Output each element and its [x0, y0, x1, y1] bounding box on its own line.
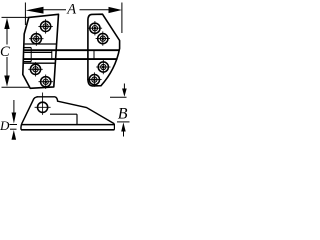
- screw A crosshair: [38, 19, 52, 33]
- side view pin hole crosshair: [35, 93, 51, 115]
- dimension D upper arrow line: [13, 100, 15, 113]
- screw H outer circle: [89, 75, 99, 85]
- dimension B extension line bottom: [117, 121, 130, 123]
- left hinge plate outline: [23, 14, 59, 88]
- dimension D up arrowhead: [12, 130, 17, 140]
- screw C crosshair: [28, 62, 42, 76]
- screw D inner circle: [43, 79, 48, 84]
- screw F outer circle: [98, 34, 108, 44]
- dimension A extension line left: [24, 3, 26, 26]
- screw A outer circle: [41, 21, 51, 31]
- screw G center dot: [102, 66, 105, 69]
- screw E center dot: [94, 27, 97, 30]
- screw C center dot: [34, 68, 37, 71]
- screw B center dot: [35, 37, 38, 40]
- screw B crosshair: [29, 32, 43, 46]
- dimension A extension line right: [121, 3, 123, 34]
- screw B inner circle: [34, 36, 39, 41]
- screw G inner circle: [101, 64, 106, 69]
- side view upright top-left rounded corner and left diagonal: [21, 97, 38, 130]
- svg-text:B: B: [118, 106, 128, 123]
- screw E outer circle: [90, 23, 100, 33]
- right hinge plate outline: [88, 14, 120, 86]
- side view flange right edge: [113, 124, 115, 130]
- screw C outer circle: [30, 64, 40, 74]
- screw F center dot: [101, 37, 104, 40]
- svg-text:C: C: [0, 44, 10, 60]
- side view pin hole circle: [38, 102, 48, 112]
- screw D outer circle: [41, 77, 51, 87]
- screw D center dot: [44, 80, 47, 83]
- screw H crosshair: [87, 72, 101, 86]
- screw E crosshair: [88, 21, 102, 35]
- dimension B down arrowhead: [122, 89, 127, 97]
- dimension A left arrowhead: [26, 7, 44, 14]
- left plate mouth bar lower: [24, 61, 32, 63]
- dimension C line upper segment: [6, 28, 8, 45]
- screw F inner circle: [100, 36, 105, 41]
- left plate channel top line: [25, 43, 57, 45]
- screw H center dot: [93, 78, 96, 81]
- dimension D extension line lower: [10, 128, 17, 130]
- screw C inner circle: [33, 67, 38, 72]
- side view base step horizontal: [50, 113, 77, 115]
- left plate mid bar: [24, 51, 52, 53]
- screw A inner circle: [43, 24, 48, 29]
- svg-text:D: D: [0, 118, 10, 133]
- dimension A right arrowhead: [109, 7, 122, 13]
- dimension C down arrowhead: [4, 76, 9, 87]
- dimension C extension line top: [2, 16, 29, 18]
- screw E inner circle: [92, 26, 97, 31]
- strap bottom edge: [24, 58, 118, 60]
- strap mouth vertical left: [30, 48, 32, 62]
- screw G outer circle: [98, 62, 108, 72]
- strap top edge: [24, 49, 119, 51]
- screw F crosshair: [96, 31, 110, 45]
- strap terminator vertical in right plate: [93, 51, 95, 59]
- screw A center dot: [44, 25, 47, 28]
- side view flange bottom line: [21, 129, 114, 131]
- screw G crosshair: [96, 60, 110, 74]
- dimension B upper arrow line: [123, 84, 125, 90]
- side view flange top line: [21, 124, 114, 126]
- screw D crosshair: [39, 75, 53, 89]
- screw B outer circle: [31, 34, 41, 44]
- dimension C up arrowhead: [4, 18, 9, 29]
- dimension A line left segment: [43, 9, 66, 11]
- left plate mouth bar upper: [24, 47, 31, 49]
- dimension B extension line top: [110, 96, 127, 98]
- svg-text:A: A: [66, 2, 76, 18]
- dimension B up arrowhead: [121, 122, 126, 131]
- side view upright top edge: [37, 96, 56, 98]
- dimension A line right segment: [80, 9, 110, 11]
- dimension B lower arrow line: [123, 131, 125, 137]
- side view base step vertical: [76, 114, 78, 124]
- strap mid terminator vertical: [51, 50, 53, 59]
- dimension C line lower segment: [6, 57, 8, 77]
- left plate channel bottom line: [24, 62, 56, 64]
- dimension D down arrowhead: [12, 113, 17, 124]
- side view strap profile (top-right slope): [55, 97, 114, 124]
- dimension D extension line upper: [10, 124, 18, 126]
- dimension C extension line bottom: [2, 86, 31, 88]
- screw H inner circle: [92, 77, 97, 82]
